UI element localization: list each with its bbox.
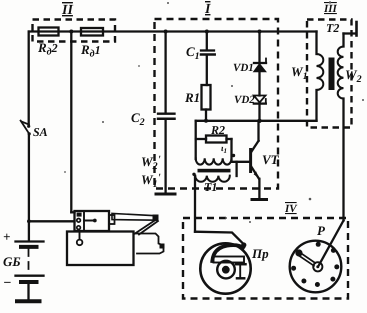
- wire W1' left end down to breaker: [194, 176, 196, 232]
- svg-text:Пр: Пр: [251, 246, 269, 261]
- svg-text:III: III: [323, 3, 338, 15]
- svg-text:R2: R2: [210, 123, 225, 137]
- wire W2 top to HV terminal: [344, 32, 357, 34]
- wire top rail: [29, 30, 317, 32]
- core T1: [198, 169, 231, 173]
- starter engagement lever: [112, 213, 159, 234]
- wire base-loop left vertical: [195, 121, 197, 159]
- wire battery junction to starter relay: [29, 220, 75, 222]
- ground (emitter): [252, 198, 267, 201]
- node C1 top: [205, 30, 209, 34]
- box I frame: [155, 19, 279, 189]
- svg-text:VD2: VD2: [234, 94, 255, 106]
- node R1 bottom on lower rail: [204, 119, 208, 123]
- node breaker terminal: [241, 242, 246, 247]
- distributor rotor hub: [313, 262, 322, 271]
- svg-text:−: −: [3, 276, 11, 291]
- svg-text:I: I: [204, 2, 211, 17]
- distributor P outer circle: [290, 241, 342, 293]
- breaker spring arc: [212, 245, 243, 261]
- distributor rotor arm: [295, 249, 315, 265]
- node diode/collector on lower rail: [257, 119, 261, 123]
- wire W1' right end up to base: [235, 162, 237, 176]
- diode VD2 (zener, cathode down): [254, 96, 266, 121]
- breaker Pr outer circle: [200, 243, 250, 293]
- starter drive pinion: [134, 234, 165, 254]
- transformer T2 winding W2: [338, 34, 344, 221]
- node junction between Rd2 and Rd1: [69, 30, 73, 34]
- breaker contact screw: [236, 264, 246, 279]
- svg-text:T2: T2: [326, 21, 339, 35]
- wire breaker feed horizontal: [195, 232, 244, 244]
- wire R1 bottom lead: [205, 110, 207, 121]
- svg-text:T1: T1: [204, 180, 217, 194]
- node C2 top: [164, 30, 168, 34]
- node polarity dot W2': [232, 154, 235, 157]
- svg-text:VD1: VD1: [233, 62, 254, 74]
- ground (battery): [17, 299, 40, 303]
- svg-text:SA: SA: [33, 125, 48, 139]
- svg-text:GБ: GБ: [3, 254, 21, 269]
- resistor Rd2: [39, 28, 59, 36]
- svg-text:P: P: [317, 223, 326, 238]
- wire base lead: [232, 161, 250, 163]
- capacitor C1: [201, 32, 215, 86]
- transistor VT1: [251, 121, 260, 198]
- capacitor C2: [158, 32, 175, 193]
- wire W2 down to distributor rotor: [319, 221, 344, 266]
- breaker cam wheel: [217, 261, 235, 279]
- dashed boxes: [33, 19, 352, 299]
- resistor Rd1: [81, 28, 103, 36]
- svg-text:II: II: [61, 3, 73, 18]
- svg-text:VT: VT: [262, 152, 280, 167]
- breaker arm bar: [214, 257, 245, 263]
- box III frame: [307, 20, 352, 128]
- wire left vertical lower (SA to battery junction): [28, 134, 30, 241]
- transformer T2 winding W1: [317, 32, 324, 121]
- svg-text:+: +: [3, 229, 10, 244]
- scan specks: [64, 1, 364, 223]
- ground (C2): [156, 193, 175, 196]
- svg-text:R1: R1: [184, 90, 200, 105]
- winding W1' of T1: [195, 176, 230, 182]
- wire vertical from resistor junction to starter relay: [70, 32, 72, 213]
- resistor R1: [202, 85, 211, 110]
- node polarity dot W1': [192, 173, 195, 176]
- resistor R2: [196, 136, 232, 143]
- winding W2' of T1: [196, 158, 232, 164]
- terminal HV output: [355, 22, 358, 36]
- node VD1 top: [258, 30, 262, 34]
- diode VD1 (zener, cathode up): [254, 32, 266, 96]
- wire base-loop right vertical: [230, 139, 232, 162]
- wire left vertical upper (to SA): [28, 32, 30, 125]
- wire lower rail: [196, 120, 317, 122]
- starter motor body: [67, 232, 134, 266]
- node battery junction: [27, 219, 31, 223]
- switch SA: [21, 121, 31, 136]
- svg-text:IV: IV: [284, 203, 298, 215]
- box II frame: [33, 20, 116, 42]
- core T2: [329, 58, 335, 91]
- starter solenoid box: [71, 211, 114, 231]
- battery GB: [16, 242, 44, 300]
- distributor contact dots: [291, 242, 339, 287]
- box IV frame: [183, 218, 348, 299]
